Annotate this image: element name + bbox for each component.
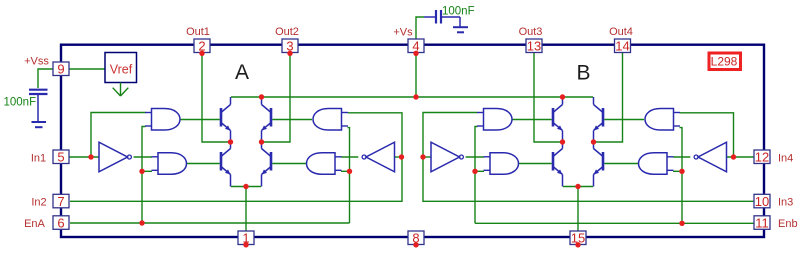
wire AND B1 output to transistor Q5 base <box>512 119 552 121</box>
svg-text:In4: In4 <box>778 153 793 165</box>
svg-text:Out1: Out1 <box>186 26 210 38</box>
pin 14 Out4 <box>609 26 633 54</box>
svg-text:In3: In3 <box>778 197 793 209</box>
Vref regulator block <box>105 53 137 83</box>
svg-text:Out3: Out3 <box>519 26 543 38</box>
wire bridge B emitter rail to sense pin 15 <box>563 187 593 232</box>
wire inverter U2 output to AND gate A4 top input <box>341 156 358 158</box>
part number box L298 <box>709 53 741 70</box>
transistor Q2 (bridge A bottom-left) <box>221 142 231 187</box>
junction dot In3 branch <box>420 154 425 159</box>
wire Enb right branch to AND gates B3 and B4 <box>673 128 682 224</box>
pin 5 In1 <box>31 150 69 165</box>
transistor Q6 (bridge B bottom-left) <box>553 142 563 187</box>
svg-text:10: 10 <box>755 194 769 209</box>
wire In4 from pin 12 to inverter U4 input <box>727 156 755 158</box>
wire AND B2 output to transistor Q6 base <box>519 163 552 165</box>
AND gate B4 <box>639 153 674 175</box>
transistor Q1 (bridge A top-left) <box>221 97 231 142</box>
label bridge B <box>576 62 590 85</box>
capacitor C1 100nF at +Vss <box>29 90 48 121</box>
wire Out4 pin 14 to bridge B right output node <box>596 53 623 142</box>
wire Out2 pin 3 to bridge A right output node <box>264 53 290 142</box>
junction dots on +Vs rail <box>259 94 565 99</box>
svg-text:Out2: Out2 <box>275 26 299 38</box>
junction dot Enb left branch <box>472 169 477 174</box>
svg-text:+Vs: +Vs <box>393 27 413 39</box>
AND gate A3 <box>313 109 348 131</box>
wire EnA left branch to AND gates A1 and A2 <box>142 127 152 224</box>
IC outline (L298 package boundary) <box>61 45 764 237</box>
wire inverter U3 output to AND gate B2 top input <box>466 156 484 158</box>
pin 3 Out2 <box>275 26 299 56</box>
svg-text:A: A <box>235 61 249 84</box>
wire AND A1 output to transistor Q1 base <box>180 119 220 121</box>
transistor Q5 (bridge B top-left) <box>553 97 563 142</box>
label C1 value 100nF <box>4 97 37 109</box>
wire In2 from pin 7 to AND gate A3 top input <box>70 113 402 202</box>
pin 11 Enb <box>754 215 798 230</box>
junction dot EnA right branch <box>347 169 352 174</box>
pin 2 Out1 <box>186 26 210 56</box>
svg-text:+Vss: +Vss <box>24 56 49 68</box>
svg-text:12: 12 <box>755 150 769 165</box>
wire Out1 pin 2 to bridge A left output node <box>202 53 228 142</box>
AND gate A4 <box>307 153 342 175</box>
svg-text:Enb: Enb <box>778 218 798 230</box>
svg-text:100nF: 100nF <box>442 5 475 17</box>
svg-text:11: 11 <box>755 215 769 230</box>
svg-text:Out4: Out4 <box>609 26 633 38</box>
wire Enb from pin 11 run <box>475 222 754 224</box>
inverter U3 (In3) <box>431 142 463 172</box>
svg-text:L298: L298 <box>711 55 738 69</box>
label C2 value 100nF <box>442 5 475 17</box>
svg-text:B: B <box>576 62 590 85</box>
AND gate B2 <box>484 153 519 175</box>
transistor Q7 (bridge B top-right) <box>594 97 604 142</box>
wire EnA from pin 6 run <box>70 222 350 224</box>
wire In3 from pin 10 to bridge B input branch <box>423 113 754 202</box>
wire In2 branch to inverter U2 input <box>395 156 403 158</box>
inverter U1 (In1) <box>99 142 131 172</box>
pin 15 sense B <box>570 231 586 248</box>
junction dots at emitter rails <box>243 184 580 189</box>
wire AND A4 output to transistor Q4 base <box>272 163 306 165</box>
wire +Vss pin 9 to decoupling capacitor C1 <box>38 69 53 88</box>
svg-text:6: 6 <box>57 215 64 230</box>
wire +Vs pin 4 up to decoupling capacitor <box>416 17 424 39</box>
wire pin 9 to Vref block <box>70 68 106 70</box>
svg-text:7: 7 <box>57 194 64 209</box>
inverter U2 (In2) <box>362 142 394 172</box>
svg-text:5: 5 <box>57 150 64 165</box>
svg-text:9: 9 <box>57 62 64 77</box>
AND gate B3 <box>645 109 680 131</box>
junction dots Enb <box>679 169 684 226</box>
wire EnA right branch to AND gates A3 and A4 <box>341 128 350 223</box>
pin 6 EnA <box>24 215 69 230</box>
ground symbol for C1 <box>32 122 47 127</box>
ground symbol for C2 <box>453 27 468 32</box>
pin 9 +Vss <box>24 56 69 77</box>
junction dot In1 branch <box>88 154 93 159</box>
junction dots EnA <box>139 169 144 226</box>
transistor Q4 (bridge A bottom-right) <box>262 142 272 187</box>
pin 1 sense A <box>238 231 254 248</box>
wire +Vs rail from pin 4 to bridge collectors <box>231 53 593 97</box>
transistor Q3 (bridge A top-right) <box>262 97 272 142</box>
wire AND B4 output to transistor Q8 base <box>604 163 638 165</box>
wire In3 branch to inverter U3 input <box>423 156 431 158</box>
wire AND A2 output to transistor Q2 base <box>187 163 220 165</box>
pin 8 GND <box>408 231 424 248</box>
pin 13 Out3 <box>519 26 543 54</box>
svg-text:14: 14 <box>615 39 629 54</box>
wire In4 branch up to AND gate B3 top input <box>680 113 734 157</box>
pin 12 In4 <box>754 150 793 165</box>
pin 4 +Vs <box>393 27 424 57</box>
AND gate A2 <box>152 153 187 175</box>
pin 10 In3 <box>754 194 793 209</box>
junction dot In2 at inverter U2 <box>399 154 404 159</box>
wire AND A3 output to transistor Q3 base <box>272 119 312 121</box>
wire inverter U4 output to AND gate B4 top input <box>673 156 690 158</box>
wire bridge A emitter rail to sense pin 1 <box>231 187 261 232</box>
svg-text:Vref: Vref <box>110 62 133 76</box>
svg-text:100nF: 100nF <box>4 97 37 109</box>
svg-text:13: 13 <box>527 39 541 54</box>
transistor Q8 (bridge B bottom-right) <box>594 142 604 187</box>
svg-text:In2: In2 <box>31 197 46 209</box>
svg-text:In1: In1 <box>31 153 46 165</box>
label bridge A <box>235 61 249 84</box>
Vref output arrow <box>113 83 129 97</box>
wire In1 branch up to AND gate A1 top input <box>91 113 146 158</box>
pin 7 In2 <box>31 194 69 209</box>
wire In1 from pin 5 to inverter U1 input <box>70 156 100 158</box>
wire Out3 pin 13 to bridge B left output node <box>534 53 560 142</box>
wire AND B3 output to transistor Q7 base <box>604 119 644 121</box>
AND gate A1 <box>145 109 180 131</box>
capacitor C2 100nF at +Vs <box>424 10 460 27</box>
wire Enb left branch to AND gates B1 and B2 <box>475 127 484 224</box>
AND gate B1 <box>477 109 512 131</box>
inverter U4 (In4) <box>694 142 726 172</box>
junction dot In4 at inverter U4 <box>731 154 736 159</box>
junction dots at bridge output nodes <box>228 139 596 144</box>
svg-text:EnA: EnA <box>24 218 45 230</box>
wire inverter U1 output to AND gate A2 top input <box>134 156 152 158</box>
